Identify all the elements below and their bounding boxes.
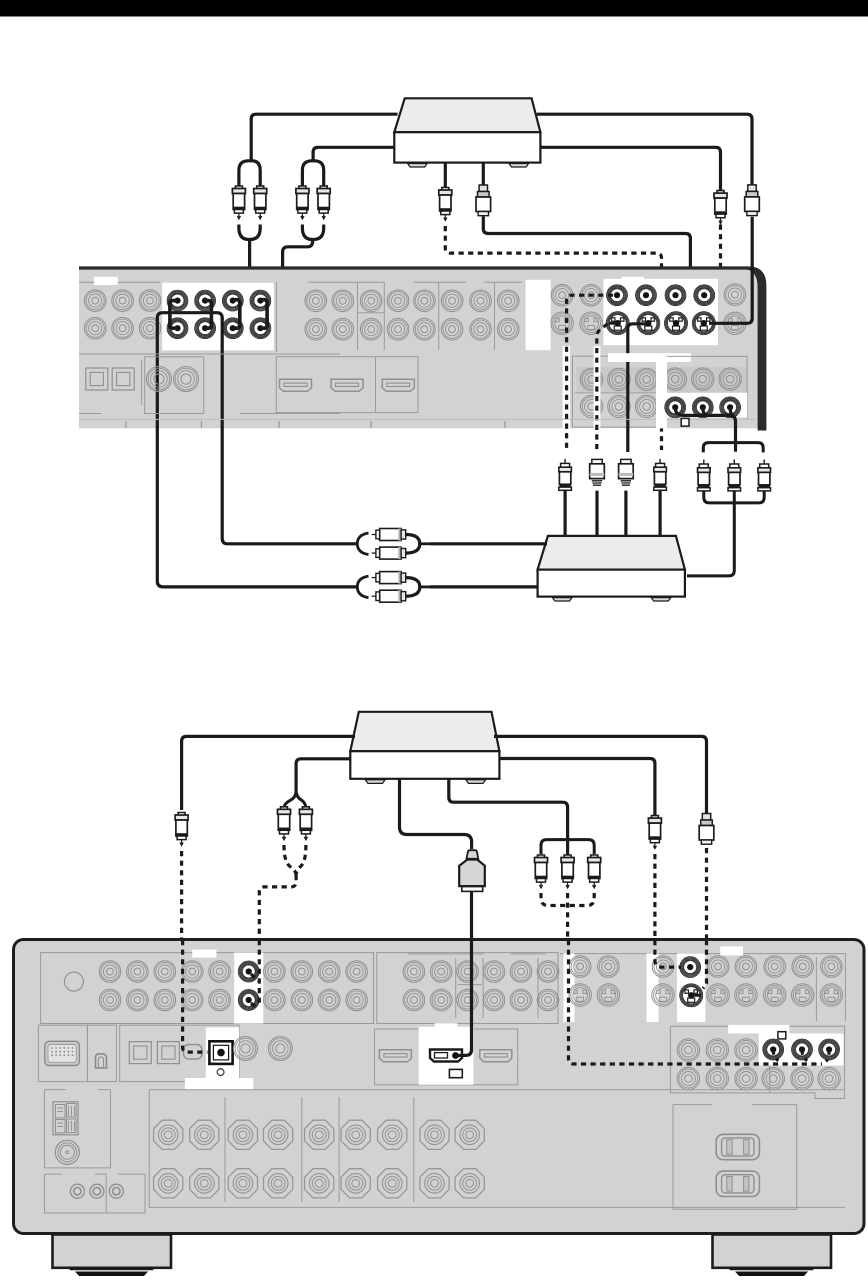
speaker terminal row2: [228, 1169, 257, 1198]
AC outlet section frame: [673, 1105, 797, 1210]
gray RCA jack video mid: [430, 961, 452, 983]
gray RCA jack M11: [305, 290, 327, 312]
speaker terminal row2: [455, 1169, 484, 1198]
HDMI section frame: [276, 357, 418, 413]
wire from pair 1 into panel: [240, 240, 250, 313]
dashed wire: s-video jack to conn C2: [610, 322, 618, 325]
device V1 (video camera / TV source) top face: [394, 98, 540, 132]
gray component jack (PR/PB/Y in): [664, 368, 686, 390]
gray RCA video jack: [652, 956, 674, 978]
component 2 gray band: [577, 367, 657, 392]
speaker terminal row1: [305, 1120, 334, 1149]
speaker terminal row2: [264, 1169, 293, 1198]
gray RCA video jack: [598, 956, 620, 978]
dashed from P10 into panel: [653, 854, 656, 940]
component marker square: [681, 418, 689, 426]
coax digital box: [145, 357, 204, 414]
plugged S-video jack: [692, 311, 716, 335]
gray RCA jack audio: [318, 989, 340, 1011]
gray RCA jack video mid: [510, 961, 532, 983]
bottom section lines: [79, 413, 340, 415]
gray S-video jack: [707, 984, 729, 1006]
gray component jack: [677, 1039, 699, 1061]
solid wire: s-video jack col4 from plug PB: [709, 217, 752, 323]
speaker section frame: [149, 1090, 845, 1208]
device V2 front face: [350, 751, 499, 779]
plugged HDMI connector: [430, 1050, 462, 1062]
dashed from P9 into panel: [705, 848, 708, 940]
speaker terminal row2: [305, 1169, 334, 1198]
gray RCA jack video mid: [483, 961, 505, 983]
gray RCA jack audio: [154, 989, 176, 1011]
audio cable pair 2 split (top U): [302, 161, 323, 186]
S-video plug PD (solid tail): [476, 185, 491, 216]
RCA plug P1b: [254, 186, 267, 219]
gray RCA video jack right: [724, 284, 746, 306]
RCA plug P2b: [317, 186, 330, 219]
panel bottom shade line: [79, 418, 756, 420]
dashed audio connection: [251, 940, 259, 1009]
digital RCA jack D1: [146, 367, 171, 392]
RCA pair assembly to device R1 (top): [372, 534, 376, 536]
gray S-video jack right: [724, 312, 746, 334]
gray component jack 2 row1: [635, 368, 657, 390]
gray RCA jack A32: [139, 317, 161, 339]
audio pair split: [284, 790, 306, 808]
gray RCA jack M62: [441, 318, 463, 340]
plugged RCA video jack: [679, 956, 701, 978]
component cable to device R1: [687, 491, 734, 576]
white highlight box (HDMI in): [419, 1027, 474, 1085]
gray RCA jack A12: [84, 317, 106, 339]
gray component jack 2 row2: [608, 395, 630, 417]
phono ground circle: [64, 972, 83, 991]
dashed merge below audio pair: [259, 845, 306, 940]
plugged component jack: [818, 1039, 840, 1061]
gray RCA jack audio: [181, 989, 203, 1011]
gray RCA video jack: [707, 956, 729, 978]
gray RCA jack video mid: [483, 989, 505, 1011]
white highlight column (plugged audio): [234, 953, 263, 1024]
gray RCA jack A21: [112, 290, 134, 312]
gray RCA jack M42: [387, 318, 409, 340]
wire W8: device V2 to component trio: [449, 779, 568, 856]
speaker terminal row1: [190, 1120, 219, 1149]
gray RCA jack audio: [154, 961, 176, 983]
solid wire below HDMI connector into panel: [470, 892, 473, 940]
white highlight box (AUDIO 1 IN/OUT): [162, 283, 274, 351]
mini jack port: [184, 1045, 202, 1060]
gray RCA jack audio: [291, 989, 313, 1011]
plugged RCA video jack: [665, 284, 687, 306]
speaker terminal row2: [154, 1169, 183, 1198]
HDMI port B1: [379, 1050, 411, 1062]
device R1 top face: [538, 536, 685, 570]
small remote jack: [70, 1184, 84, 1198]
HDMI port H1: [280, 379, 312, 391]
white label strip (component B): [728, 1025, 789, 1034]
multi-pin connector frame: [38, 1025, 87, 1081]
component RCA plug K1: [698, 460, 711, 491]
gray RCA jack video mid: [430, 989, 452, 1011]
gray RCA video jack: [580, 284, 602, 306]
gray S-video jack: [569, 984, 591, 1006]
gray S-video jack: [764, 984, 786, 1006]
speaker terminal row1: [228, 1120, 257, 1149]
gray RCA jack M31: [360, 290, 382, 312]
gray component jack (PR/PB/Y in): [692, 368, 714, 390]
device R1 front face: [538, 570, 685, 597]
gray component jack (PR/PB/Y in): [719, 368, 741, 390]
S-video conn C3 (solid): [619, 459, 634, 485]
gray RCA video jack: [551, 284, 573, 306]
white label strip (component): [608, 353, 691, 362]
RCA conn C1 (video, dashed): [559, 459, 572, 490]
plugged component jack: [692, 396, 714, 418]
jumper cable col3 (right C): [233, 300, 240, 329]
speaker terminal row2: [190, 1169, 219, 1198]
dashed stub into VIDEO-2 RCA jack: [662, 294, 672, 297]
speaker terminal row1: [455, 1120, 484, 1149]
small remote jack: [109, 1184, 123, 1198]
solid route: plug PD to S-video jack: [483, 217, 690, 323]
plugged RCA jack audio R: [238, 989, 260, 1011]
right foot: [713, 1235, 832, 1268]
RCA plug P10 (dashed below): [648, 816, 661, 849]
middle video section frame: [377, 953, 558, 1024]
plugged RCA jack B32: [222, 317, 244, 339]
jumper cable col2 (right C): [205, 301, 211, 329]
speaker group dividers: [225, 1097, 414, 1202]
component RCA plug P8c: [588, 855, 601, 888]
gray RCA jack M21: [332, 290, 354, 312]
S-video plug P9 (dashed below): [699, 814, 714, 845]
white highlight box (coax digital): [206, 1028, 239, 1082]
speaker terminal row1: [341, 1120, 370, 1149]
coax digital jack (plugged): [209, 1041, 232, 1064]
wire W4: device V1 right-lower to RCA plug PA: [540, 147, 720, 190]
AC outlet: [716, 1134, 759, 1159]
wire W2: device V1 left-lower to audio pair 2: [313, 147, 394, 161]
gray RCA jack video mid: [403, 989, 425, 1011]
gray RCA jack audio: [209, 961, 231, 983]
wire W1: device V1 left-top to audio pair 1: [251, 114, 397, 161]
gray RCA jack audio: [181, 961, 203, 983]
plugged RCA video jack: [693, 284, 715, 306]
plugged S-video jack: [664, 311, 688, 335]
component bracket from panel: [703, 443, 763, 453]
white highlight box (component out): [661, 393, 748, 418]
speaker terminal row2: [378, 1169, 407, 1198]
gray component jack row2: [791, 1067, 813, 1089]
gray component jack row2: [677, 1067, 699, 1089]
gray RCA jack M71: [470, 290, 492, 312]
gray component jack 2 row2: [580, 395, 602, 417]
dashed conn to S-video: [703, 940, 707, 989]
optical port T1: [129, 1042, 151, 1064]
wire W9: device V2 right-top to s-video plug: [494, 736, 707, 813]
jumper cable col1 (left C): [170, 301, 178, 329]
gray RCA jack audio: [318, 961, 340, 983]
plugged RCA video jack: [606, 284, 628, 306]
gray RCA jack audio: [346, 989, 368, 1011]
digital RCA jack D2: [174, 367, 199, 392]
receiver panel A: right corner and side band: [747, 266, 766, 430]
analog RCA pair right of digital: [234, 1037, 258, 1061]
optical port T2: [157, 1042, 179, 1064]
speaker terminal row1: [154, 1120, 183, 1149]
component RCA plug K2: [728, 460, 741, 491]
component out cable bus: [675, 407, 735, 450]
RCA conn C4 (video, dashed): [654, 459, 667, 490]
audio cable pair 1 split (top U): [239, 161, 260, 186]
gray component jack: [735, 1039, 757, 1061]
dashed from plug P5 into panel: [180, 851, 183, 940]
white label tab (video right): [720, 946, 743, 955]
gray RCA jack M72: [470, 318, 492, 340]
optical jack O2: [112, 368, 134, 390]
gray component jack 2 row1: [608, 368, 630, 390]
HDMI port H2: [331, 379, 363, 391]
device R1 feet: [552, 598, 572, 601]
HDMI port B3: [480, 1050, 512, 1062]
RCA plug P1a: [232, 186, 245, 219]
plugged RCA jack B22: [194, 317, 216, 339]
plugged component jack: [664, 396, 686, 418]
FM coax antenna jack: [55, 1140, 79, 1164]
antenna spring terminals: [53, 1102, 78, 1135]
gray RCA jack M32: [360, 318, 382, 340]
gray component jack row2: [735, 1067, 757, 1089]
white cable channels: [563, 346, 570, 428]
dashed route into coax jack: [183, 940, 208, 1052]
gray RCA video jack: [569, 956, 591, 978]
RCA plug P5 (coax digital, dashed below): [175, 813, 188, 846]
gray RCA jack audio: [127, 961, 149, 983]
gray RCA jack video mid: [403, 961, 425, 983]
white channel for component dashed cable: [564, 953, 575, 1022]
device V2 (DVD player) top face: [350, 712, 499, 751]
plugged RCA jack B31: [222, 290, 244, 312]
gray RCA video jack: [735, 956, 757, 978]
RCA plug P2a: [296, 186, 309, 219]
component section frame: [670, 1026, 844, 1098]
component RCA plug K3: [758, 460, 771, 491]
device V1 left foot: [408, 164, 428, 168]
gray RCA jack M81: [497, 290, 519, 312]
dashed conn to video RCA: [655, 940, 681, 967]
gray S-video jack: [580, 312, 602, 334]
gray component jack row2: [818, 1067, 840, 1089]
multi-pin connector: [45, 1041, 80, 1065]
top header bar: [0, 0, 868, 17]
white highlight box (VIDEO 1/2 jacks): [604, 279, 719, 345]
divider: [141, 360, 143, 405]
RCA pair assembly to device R1 (bottom): [372, 577, 376, 579]
plugged RCA video jack: [635, 284, 657, 306]
wire W3: device V1 right-top to S-video plug PB: [537, 114, 752, 185]
gray component jack row2: [762, 1067, 784, 1089]
plugged RCA jack audio L: [238, 961, 260, 983]
long wire L2: audio out to device R1 (right leg): [222, 318, 357, 544]
gray RCA jack audio: [346, 961, 368, 983]
plugged S-video jack: [636, 311, 660, 335]
receiver panel A: body: [79, 268, 766, 428]
section line above digital: [79, 353, 340, 355]
component section frame: [663, 356, 747, 418]
HDMI cable connector (D-shell): [459, 850, 485, 891]
D-port frame: [87, 1025, 116, 1081]
white label tab (video section): [622, 277, 645, 285]
plugged RCA jack B21: [194, 290, 216, 312]
speaker terminal row2: [341, 1169, 370, 1198]
gray RCA jack audio: [99, 961, 121, 983]
gray RCA jack M12: [305, 318, 327, 340]
component RCA plug P8b: [561, 855, 574, 888]
antenna section frame: [45, 1090, 111, 1168]
RCA plug PA (dashed tail): [714, 191, 727, 224]
gray RCA jack video mid: [537, 989, 559, 1011]
speaker terminal row1: [420, 1120, 449, 1149]
audio section frame: [41, 953, 374, 1024]
wire W10: device V2 right-lower to RCA plug: [499, 759, 655, 816]
label tab (audio section): [94, 277, 118, 285]
gray RCA jack audio: [127, 989, 149, 1011]
receiver-side cable pair 2 merge (bottom U): [302, 225, 323, 240]
gray RCA jack M51: [414, 290, 436, 312]
speaker terminal row1: [378, 1120, 407, 1149]
gray RCA video jack: [792, 956, 814, 978]
plugged RCA jack B11: [167, 290, 189, 312]
component bracket: [541, 840, 594, 855]
bottom tick marks: [126, 421, 505, 428]
wire W6: device V2 to analog audio pair: [296, 759, 350, 790]
gray S-video jack: [597, 984, 619, 1006]
RCA plug PC (composite video, dashed tail): [439, 188, 452, 221]
gray RCA jack M22: [332, 318, 354, 340]
gray RCA video jack: [764, 956, 786, 978]
speaker terminal row2: [420, 1169, 449, 1198]
gray RCA jack video mid: [457, 989, 479, 1011]
receiver panel B body: [14, 940, 865, 1234]
HDMI marker rect: [449, 1069, 462, 1077]
speaker terminal row1: [264, 1120, 293, 1149]
component marker square: [778, 1032, 786, 1039]
component section 2 frame: [573, 356, 660, 427]
dashed merge below component trio: [541, 893, 594, 940]
cable from device V1 bottom to RCA plug PC: [444, 163, 447, 190]
device V1 right foot: [509, 164, 529, 168]
solid wire: s-video jack to conn C3: [628, 324, 647, 452]
gray component jack 2 row2: [635, 395, 657, 417]
gray RCA jack audio: [264, 961, 286, 983]
gray RCA jack audio: [99, 989, 121, 1011]
gray RCA jack audio: [209, 989, 231, 1011]
plugged S-video jack: [606, 311, 630, 335]
wire W7: device V2 to HDMI cable connector: [400, 779, 472, 849]
gray RCA jack video mid: [510, 989, 532, 1011]
long dashed component connection: [569, 940, 830, 1064]
D-shaped port: [96, 1054, 107, 1068]
gray S-video jack: [652, 984, 674, 1006]
gray RCA jack audio: [264, 989, 286, 1011]
gray component jack 2 row1: [580, 368, 602, 390]
plugged RCA jack B41: [250, 290, 272, 312]
gray S-video jack: [551, 312, 573, 334]
digital audio section frame: [120, 1025, 239, 1081]
gray RCA jack A22: [112, 317, 134, 339]
white channel for s-video dashed cable: [647, 953, 659, 1022]
gray RCA jack M41: [387, 290, 409, 312]
gray S-video jack: [820, 984, 842, 1006]
gray S-video jack: [792, 984, 814, 1006]
long wire L1: audio out to device R1 (left leg): [157, 318, 357, 587]
white label tab (audio): [192, 950, 216, 958]
AC outlet: [716, 1171, 759, 1196]
component cable merge below: [704, 491, 764, 503]
white highlight box (component plugged): [759, 1034, 844, 1066]
gray RCA video jack: [821, 956, 843, 978]
RCA plug P6b: [299, 807, 312, 840]
dashed wire: video jack to conn C1: [567, 295, 613, 452]
HDMI section frame: [375, 1029, 518, 1085]
device V1 front face: [394, 132, 540, 162]
right video section frame: [560, 954, 845, 1021]
RCA plug P6a: [278, 807, 291, 840]
component gray band: [664, 367, 747, 393]
cable from device V1 bottom to S-video plug PD: [482, 163, 485, 185]
S-video conn C2 (dashed): [590, 459, 605, 485]
wire hook into HDMI: [457, 940, 472, 1056]
gray RCA jack A11: [84, 290, 106, 312]
gray RCA jack video mid: [457, 961, 479, 983]
plugged component jack: [762, 1039, 784, 1061]
dashed route: plug PC to video jacks column: [445, 226, 661, 450]
gray RCA jack M82: [497, 318, 519, 340]
gray component jack row2: [706, 1067, 728, 1089]
audio out pair bridge to device R1: [157, 313, 222, 320]
gray S-video jack: [735, 984, 757, 1006]
device V2 feet: [365, 780, 385, 784]
S-video plug PB (solid): [745, 185, 760, 216]
gray RCA jack audio: [291, 961, 313, 983]
plugged component jack: [791, 1039, 813, 1061]
white highlight column (plugged video): [677, 953, 706, 1022]
dashed wire from plug PA to VIDEO-1 in jack: [709, 225, 721, 296]
plugged component jack: [719, 396, 741, 418]
screw circle below coax: [217, 1069, 224, 1076]
plugged RCA jack B42: [250, 317, 272, 339]
wire W5: device V2 to coax digital plug: [182, 736, 355, 810]
HDMI port H3: [382, 379, 414, 391]
cables below conns to device R1: [563, 490, 566, 535]
section line: [79, 281, 160, 283]
white label tab (speakers): [185, 1078, 253, 1089]
middle section frame: [277, 282, 523, 352]
gray RCA jack video mid: [537, 961, 559, 983]
receiver-side cable pair 1 merge (bottom U): [239, 225, 260, 240]
white gap strip: [526, 280, 551, 350]
small remote jack: [90, 1184, 104, 1198]
gray RCA jack M52: [414, 318, 436, 340]
gray RCA jack A31: [139, 290, 161, 312]
receiver panel A: top edge: [79, 266, 748, 269]
component RCA plug P8a: [535, 855, 548, 888]
gray component jack: [706, 1039, 728, 1061]
gray RCA jack M61: [441, 290, 463, 312]
wire from pair 2 into panel: [267, 240, 313, 313]
plugged S-video jack: [679, 983, 703, 1007]
